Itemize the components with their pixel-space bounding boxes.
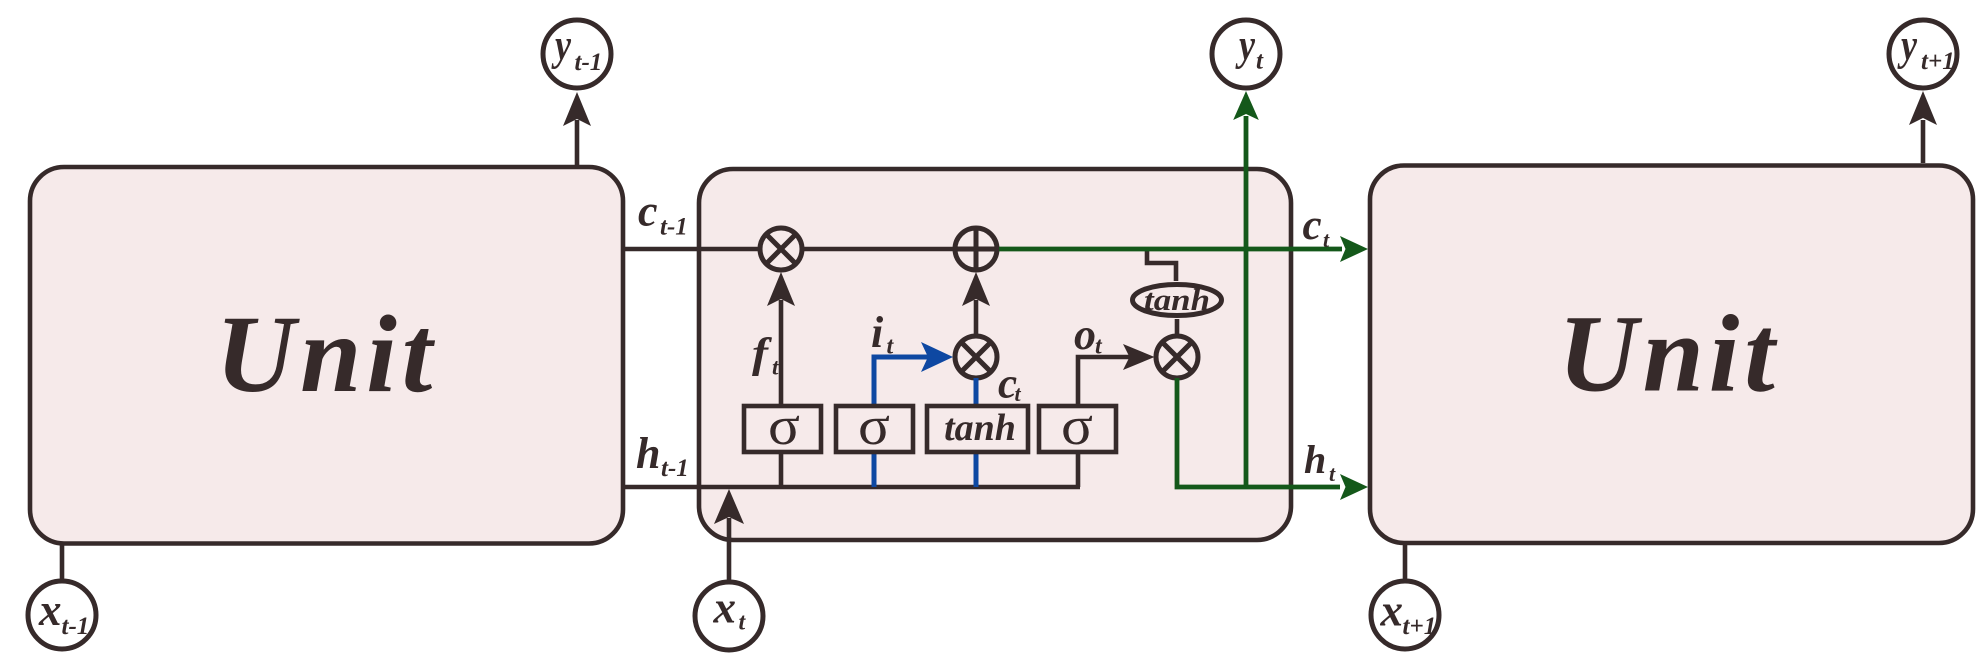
svg-text:σ: σ (768, 395, 800, 456)
wire candidate (blue) below multiply-2 (974, 378, 979, 487)
svg-text:t: t (1015, 381, 1022, 406)
wire x(t-1) to unit (60, 543, 65, 581)
svg-text:Unit: Unit (216, 293, 438, 415)
node y(t+1) (1889, 20, 1957, 88)
label c(t) output (1303, 202, 1331, 252)
svg-text:x: x (713, 583, 737, 633)
label h(t-1) (636, 429, 689, 482)
wire arrow to y(t-1) (563, 92, 591, 165)
cell boundary (LSTM cell) (699, 169, 1291, 540)
svg-text:t+1: t+1 (1921, 48, 1955, 75)
wire add arrow from multiply-2 (962, 272, 990, 336)
label f(t) (752, 331, 779, 380)
label i(t) (871, 308, 895, 360)
wire ellipse to multiply-3 (1175, 319, 1180, 336)
node multiply (output) (1156, 336, 1198, 378)
wire input gate (blue) (874, 342, 953, 487)
svg-text:h: h (1304, 437, 1326, 482)
svg-text:x: x (1380, 586, 1404, 636)
node x(t+1) (1371, 581, 1439, 649)
node y(t) (1212, 20, 1280, 88)
unit block U(t-1) (30, 167, 623, 544)
wire cell-state between multiply and add (802, 247, 955, 252)
svg-text:t-1: t-1 (62, 613, 90, 640)
label h(t) output (1304, 437, 1336, 486)
unit block U(t+1) (1370, 166, 1973, 544)
wire c(t) output (green) (999, 236, 1368, 262)
svg-text:t: t (1329, 461, 1336, 486)
node add (cell update) (955, 228, 997, 270)
svg-text:tanh: tanh (1144, 282, 1210, 317)
wire y(t) output (green vertical) (1233, 91, 1259, 487)
svg-text:t-1: t-1 (575, 49, 603, 76)
wire x(t+1) to unit (1403, 543, 1408, 581)
label o(t) (1074, 310, 1103, 360)
svg-text:t+1: t+1 (1403, 613, 1437, 640)
svg-text:t: t (1256, 48, 1264, 75)
wire h(t) output (green) (1177, 378, 1368, 500)
wire arrow to y(t+1) (1909, 91, 1937, 163)
wire output gate o (1078, 344, 1155, 487)
svg-text:h: h (636, 429, 660, 478)
node x(t) (695, 582, 763, 650)
label c(t-1) (638, 187, 688, 241)
svg-text:σ: σ (858, 395, 890, 456)
tanh ellipse (1133, 282, 1222, 317)
wire hook from c-line to tanh ellipse (1147, 251, 1176, 281)
svg-text:Unit: Unit (1558, 293, 1780, 415)
svg-text:t-1: t-1 (661, 455, 689, 482)
gate box sigma 1 (744, 395, 821, 487)
svg-text:o: o (1074, 310, 1096, 359)
svg-text:t: t (772, 355, 779, 380)
svg-text:t: t (1323, 227, 1330, 252)
node x(t-1) (28, 581, 96, 649)
label c(t) candidate (998, 361, 1022, 408)
gate box tanh (927, 406, 1028, 452)
svg-text:i: i (871, 308, 884, 357)
wire h(t-1) input (623, 485, 1080, 490)
wire c(t-1) input (623, 247, 760, 252)
wire x(t) arrow into cell (714, 489, 744, 582)
svg-text:c: c (1303, 202, 1322, 249)
svg-text:x: x (38, 585, 62, 635)
node multiply (input gate) (955, 336, 997, 378)
wire forget arrow f (767, 272, 795, 408)
node y(t-1) (543, 20, 611, 88)
gate box sigma 2 (836, 395, 913, 456)
svg-text:c: c (638, 187, 658, 236)
node multiply (forget gate) (760, 228, 802, 270)
gate box sigma 3 (output) (1039, 395, 1116, 456)
svg-text:t-1: t-1 (660, 214, 688, 241)
svg-text:tanh: tanh (944, 407, 1016, 449)
